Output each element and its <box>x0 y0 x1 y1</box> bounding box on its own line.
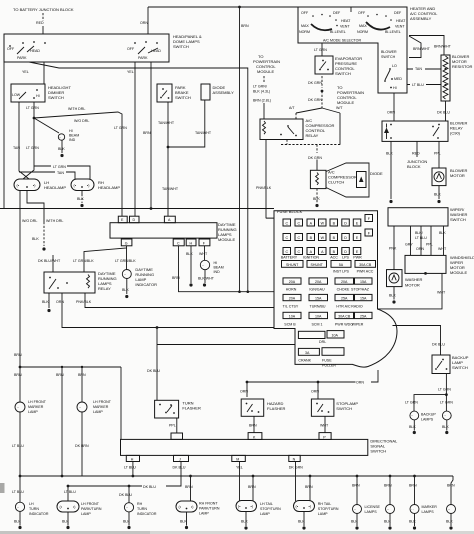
svg-text:LAMP: LAMP <box>260 512 270 516</box>
component D1 DIODE ASSEMBLY <box>201 84 210 100</box>
svg-text:PPL: PPL <box>169 424 176 428</box>
svg-text:OFF: OFF <box>7 47 15 51</box>
svg-text:HORN: HORN <box>286 287 297 291</box>
svg-text:HI: HI <box>36 94 40 98</box>
svg-text:ORN: ORN <box>416 247 424 251</box>
ground blower relay <box>389 200 392 203</box>
fuse row SCM B/SCM 1/PWR WDO/WIPER <box>283 312 372 318</box>
svg-text:··: ·· <box>387 508 389 512</box>
svg-text:WHT: WHT <box>199 252 208 256</box>
svg-text:WASHER: WASHER <box>405 277 423 282</box>
svg-text:BRN: BRN <box>409 484 417 488</box>
wire PARK output left edge <box>3 62 5 209</box>
svg-text:C: C <box>297 236 300 240</box>
svg-text:LT GRN: LT GRN <box>438 388 451 392</box>
svg-text:WHT: WHT <box>437 291 446 295</box>
lamp LICENSE LAMP 2 <box>386 505 395 514</box>
svg-text:CLUTCH: CLUTCH <box>328 180 344 185</box>
svg-text:MOTOR: MOTOR <box>405 283 420 288</box>
wire LT BLU bus <box>132 462 134 477</box>
svg-text:MODULE: MODULE <box>257 69 274 74</box>
pin DK GRN output N <box>289 455 300 461</box>
svg-text:BLK: BLK <box>446 520 453 524</box>
lamp RH FRONT MARKER LAMP <box>77 402 87 412</box>
switch S7 STOPLAMP SWITCH <box>311 399 334 416</box>
svg-text:PWR: PWR <box>353 256 362 260</box>
svg-text:SWITCH: SWITCH <box>175 95 191 100</box>
svg-text:T/L CTSY: T/L CTSY <box>283 304 299 308</box>
svg-text:BATTERY: BATTERY <box>281 256 298 260</box>
lamp RH HEADLAMP <box>71 179 94 191</box>
svg-text:FUSE: FUSE <box>322 359 332 363</box>
svg-text:SCM B: SCM B <box>284 322 296 326</box>
relay K1 DAYTIME RUNNING LAMPS RELAY <box>44 272 95 293</box>
svg-text:•): •) <box>251 505 253 509</box>
svg-text:10A: 10A <box>332 333 339 337</box>
svg-text:MAX: MAX <box>359 24 367 28</box>
svg-text:C: C <box>177 241 180 245</box>
svg-text:NORM: NORM <box>357 30 368 34</box>
svg-text:STOP/TURN: STOP/TURN <box>318 507 339 511</box>
svg-text:BEAM: BEAM <box>214 266 224 270</box>
svg-text:LICENSE: LICENSE <box>365 505 381 509</box>
svg-text:LT GRN: LT GRN <box>440 401 453 405</box>
ground RH turn ind <box>127 526 130 529</box>
svg-text:SWITCH: SWITCH <box>450 217 466 222</box>
svg-text:DK BLU/WHT: DK BLU/WHT <box>38 259 61 263</box>
svg-text:BEAM: BEAM <box>69 134 79 138</box>
ground LH turn ind <box>18 526 21 529</box>
svg-text:RELAY: RELAY <box>98 286 111 291</box>
lamp RH TURN INDICATOR <box>124 503 133 512</box>
svg-text:HI: HI <box>69 129 73 133</box>
svg-text:25A: 25A <box>360 314 367 318</box>
svg-text:DK GRN: DK GRN <box>308 98 322 102</box>
svg-text:BLK: BLK <box>409 520 416 524</box>
wire top bus to A/C assembly <box>148 7 351 12</box>
svg-text:DK GRN: DK GRN <box>308 81 322 85</box>
svg-text:W/O DRL: W/O DRL <box>22 219 37 223</box>
svg-text:SCM 1: SCM 1 <box>312 322 323 326</box>
pin D <box>130 216 140 223</box>
ground blower motor <box>437 200 440 203</box>
svg-text:H: H <box>190 241 193 245</box>
svg-text:BLK (4.3L): BLK (4.3L) <box>253 90 270 94</box>
svg-text:OFF: OFF <box>358 11 366 15</box>
svg-text:··: ·· <box>411 414 413 418</box>
svg-text:SHUNT: SHUNT <box>286 263 299 267</box>
switch S6 BACKUP LAMP SWITCH <box>432 355 450 374</box>
svg-text:20A: 20A <box>289 280 296 284</box>
svg-text:BLK: BLK <box>439 231 446 235</box>
svg-text:LH FRONT: LH FRONT <box>93 400 112 404</box>
svg-text:ORN: ORN <box>140 21 148 25</box>
motor M1 BLOWER MOTOR <box>432 168 446 186</box>
pin H <box>186 239 196 246</box>
ground LH headlamp <box>42 247 45 250</box>
svg-text:5A: 5A <box>339 263 344 267</box>
svg-text:C: C <box>285 222 288 226</box>
pin T turn input <box>171 433 183 439</box>
svg-text:BRN/WHT: BRN/WHT <box>434 45 452 49</box>
svg-text:LT GRN: LT GRN <box>314 48 327 52</box>
svg-text:•): •) <box>191 505 193 509</box>
svg-text:VENT: VENT <box>395 25 405 29</box>
svg-text:··: ·· <box>124 273 126 277</box>
svg-text:W/O DRL: W/O DRL <box>74 119 89 123</box>
svg-text:WITH DRL: WITH DRL <box>46 219 63 223</box>
svg-text:DK BLU: DK BLU <box>173 465 186 469</box>
ground LH front park lamp <box>66 526 69 529</box>
svg-text:ASSEMBLY: ASSEMBLY <box>213 90 235 95</box>
svg-text:DK GRN: DK GRN <box>308 156 322 160</box>
svg-text:INST LPS: INST LPS <box>333 270 350 274</box>
svg-text:INDICATOR: INDICATOR <box>135 282 157 287</box>
lamp BACKUP LAMP LH <box>410 411 419 420</box>
svg-text:CRANK: CRANK <box>298 359 311 363</box>
svg-text:TURN/BU: TURN/BU <box>310 304 326 308</box>
switch S2 HEADLIGHT DIMMER SWITCH <box>11 84 45 102</box>
ground DRL relay <box>47 309 50 312</box>
lamp LH FRONT PARK/TURN LAMP <box>57 501 79 512</box>
svg-text:TURN: TURN <box>137 507 147 511</box>
svg-text:LT BLU: LT BLU <box>12 490 24 494</box>
wire G to relay and indicator <box>84 246 127 272</box>
svg-text:20A: 20A <box>341 280 348 284</box>
svg-text:ACC: ACC <box>330 256 338 260</box>
svg-text:LH: LH <box>29 502 34 506</box>
svg-text:HEADLAMP: HEADLAMP <box>44 185 66 190</box>
svg-text:BRN: BRN <box>143 131 151 135</box>
wire ORN fuse block to flashers <box>247 370 378 397</box>
svg-text:TURN: TURN <box>29 507 39 511</box>
svg-text:CHOKE: CHOKE <box>337 287 350 291</box>
pin A <box>164 216 175 223</box>
svg-text:PWR WDO: PWR WDO <box>335 322 353 326</box>
svg-text:WHT: WHT <box>438 247 447 251</box>
pin F <box>199 239 210 246</box>
node TAN/WHT junction <box>167 146 170 149</box>
svg-text:INDICATOR: INDICATOR <box>137 512 157 516</box>
svg-text:•): •) <box>33 184 35 188</box>
svg-text:BRN/WHT: BRN/WHT <box>413 47 431 51</box>
svg-text:BLK: BLK <box>442 425 449 429</box>
svg-text:IGNITION: IGNITION <box>303 256 319 260</box>
svg-text:IND: IND <box>69 138 76 142</box>
svg-text:BLK: BLK <box>409 425 416 429</box>
svg-text:15A: 15A <box>360 296 367 300</box>
svg-text:LT GRN/BLK: LT GRN/BLK <box>115 259 136 263</box>
svg-text:RESISTOR: RESISTOR <box>452 64 472 69</box>
svg-text:LT BLU: LT BLU <box>124 465 136 469</box>
svg-text:LT GRN: LT GRN <box>26 106 39 110</box>
svg-text:BLOWER: BLOWER <box>381 50 397 54</box>
svg-text:OFF: OFF <box>301 11 309 15</box>
svg-text:··: ·· <box>448 508 450 512</box>
svg-text:•): •) <box>309 505 311 509</box>
svg-text:··: ·· <box>354 508 356 512</box>
svg-text:RH TAIL: RH TAIL <box>318 502 331 506</box>
svg-text:BLK: BLK <box>386 152 393 156</box>
wire main horizontal bus <box>0 208 274 210</box>
component L1 A/C COMPRESSOR CLUTCH <box>310 170 326 188</box>
svg-text:FUSE BLOCK: FUSE BLOCK <box>277 209 303 214</box>
svg-text:15A: 15A <box>360 280 367 284</box>
svg-text:C: C <box>297 222 300 226</box>
svg-text:M: M <box>236 458 239 462</box>
lamp LH TAIL STOP/TURN LAMP <box>236 501 257 512</box>
wire DK BLU to backup lamp switch <box>393 326 441 356</box>
pin YEL output M <box>232 455 246 461</box>
svg-text:(C90): (C90) <box>450 131 461 136</box>
relay K4 TURN FLASHER <box>155 400 179 418</box>
svg-text:RH FRONT: RH FRONT <box>199 502 218 506</box>
wire DK BLU bus <box>68 462 181 502</box>
wire fuse block lower feed <box>157 344 295 346</box>
svg-text:BLK: BLK <box>122 288 129 292</box>
svg-text:SWITCH: SWITCH <box>336 406 352 411</box>
wire LH headlamp ground drop <box>27 191 44 223</box>
svg-text:10A: 10A <box>315 314 322 318</box>
svg-text:LH FRONT: LH FRONT <box>81 502 100 506</box>
svg-text:W: W <box>321 236 325 240</box>
svg-text:•): •) <box>87 184 89 188</box>
ground H pin <box>189 283 192 286</box>
svg-text:OFF: OFF <box>127 47 135 51</box>
wire relay output dashed <box>281 140 341 145</box>
svg-text:LT GRN/: LT GRN/ <box>253 85 267 89</box>
svg-text:LAMP: LAMP <box>199 512 209 516</box>
svg-text:N: N <box>293 458 296 462</box>
module A1 HEATER AND A/C CONTROL ASSEMBLY <box>298 7 407 93</box>
svg-text:LO: LO <box>392 64 397 68</box>
svg-text:SWITCH: SWITCH <box>452 365 468 370</box>
svg-text:D: D <box>344 250 347 254</box>
svg-text:C: C <box>285 236 288 240</box>
svg-text:BLK: BLK <box>389 294 396 298</box>
ground hi beam ind 2 <box>203 283 206 286</box>
svg-text:BLK: BLK <box>434 193 441 197</box>
svg-text:D: D <box>344 222 347 226</box>
svg-text:DK BLU: DK BLU <box>437 111 450 115</box>
svg-text:VENT: VENT <box>340 25 350 29</box>
svg-text:BLK: BLK <box>42 300 49 304</box>
svg-text:PNK/BLK: PNK/BLK <box>76 300 92 304</box>
ground hi beam ind <box>60 154 63 157</box>
svg-text:BRN: BRN <box>305 485 313 489</box>
svg-text:D: D <box>133 218 136 222</box>
ground clutch <box>315 204 318 207</box>
svg-text:MAX: MAX <box>301 24 309 28</box>
svg-text:LT GRN: LT GRN <box>26 146 39 150</box>
svg-text:RADIO: RADIO <box>351 304 363 308</box>
wire battery feed dashed <box>42 13 44 21</box>
svg-text:DEF: DEF <box>394 11 402 15</box>
svg-text:WITH DRL: WITH DRL <box>68 107 85 111</box>
svg-text:GRY: GRY <box>405 243 413 247</box>
svg-text:DK BLU: DK BLU <box>143 485 156 489</box>
svg-text:H: H <box>131 458 134 462</box>
svg-text:TAN/WHT: TAN/WHT <box>158 121 175 125</box>
svg-text:DRL: DRL <box>319 340 326 344</box>
svg-text:BRN: BRN <box>14 353 22 357</box>
motor M2 WASHER MOTOR <box>387 270 403 287</box>
svg-text:PNK/BLK: PNK/BLK <box>256 186 272 190</box>
relay K3 BLOWER RELAY (C90) <box>382 121 448 141</box>
svg-text:MODULE: MODULE <box>450 270 467 275</box>
svg-text:TO BATTERY JUNCTION BLOCK: TO BATTERY JUNCTION BLOCK <box>13 7 74 12</box>
svg-text:C: C <box>285 250 288 254</box>
svg-text:MOTOR: MOTOR <box>450 173 465 178</box>
svg-text:LT GRN: LT GRN <box>53 165 66 169</box>
svg-text:30A CB: 30A CB <box>359 263 372 267</box>
svg-text:SWITCH: SWITCH <box>173 44 189 49</box>
svg-text:MARKER: MARKER <box>28 405 44 409</box>
module U2 WINDSHIELD WIPER MOTOR MODULE <box>405 255 446 273</box>
ground washer motor <box>392 300 395 303</box>
lamp RH TAIL STOP/TURN LAMP <box>294 501 315 512</box>
svg-text:MODULE: MODULE <box>218 237 235 242</box>
svg-text:20A: 20A <box>315 280 322 284</box>
svg-text:BRN: BRN <box>14 373 22 377</box>
wire YEL to LH tail <box>239 462 241 502</box>
svg-text:LAMP: LAMP <box>318 512 328 516</box>
lamp HI BEAM IND <box>58 134 64 140</box>
lamp LH TURN INDICATOR <box>15 502 24 511</box>
component D2 diode bracket <box>326 163 369 197</box>
svg-text:SWITCH: SWITCH <box>48 95 64 100</box>
svg-text:BRN (2.8L): BRN (2.8L) <box>253 99 271 103</box>
svg-text:15A: 15A <box>315 296 322 300</box>
svg-text:PARK/TURN: PARK/TURN <box>199 507 220 511</box>
svg-text:BLK: BLK <box>241 520 248 524</box>
svg-text:ORN: ORN <box>240 390 248 394</box>
pin G <box>121 239 132 246</box>
svg-text:IND: IND <box>214 270 221 274</box>
node BRN tap junction <box>238 6 241 9</box>
svg-text:A/C MODE SELECTOR: A/C MODE SELECTOR <box>323 39 361 43</box>
svg-text:•): •) <box>73 505 75 509</box>
svg-text:G: G <box>125 241 128 245</box>
svg-text:BRN: BRN <box>384 484 392 488</box>
svg-text:HEAD: HEAD <box>30 49 40 53</box>
svg-text:DK GRN: DK GRN <box>289 465 303 469</box>
svg-text:BLK/: BLK/ <box>415 231 423 235</box>
svg-text:BRN: BRN <box>249 424 257 428</box>
svg-text:3A: 3A <box>305 351 310 355</box>
svg-text:PPL: PPL <box>426 243 433 247</box>
svg-text:BRN: BRN <box>185 485 193 489</box>
svg-text:··: ·· <box>59 136 61 140</box>
switch S5 WIPER/WASHER SWITCH <box>388 208 448 226</box>
svg-text:PULLER: PULLER <box>322 364 336 368</box>
pin C <box>173 239 184 246</box>
component R1 BLOWER MOTOR RESISTOR <box>441 55 450 101</box>
svg-text:LOW: LOW <box>12 93 21 97</box>
svg-text:30A CB: 30A CB <box>338 314 351 318</box>
pin K hazard input <box>248 433 262 440</box>
lamp HI BEAM IND 2 <box>200 260 209 269</box>
svg-text:ASSEMBLY: ASSEMBLY <box>410 16 432 21</box>
svg-text:··: ·· <box>79 406 81 410</box>
svg-text:··: ·· <box>126 506 128 510</box>
wire BLK LH headlamp ground <box>43 222 45 246</box>
svg-text:HI: HI <box>214 261 218 265</box>
svg-text:MODULE: MODULE <box>337 100 354 105</box>
module U1 DAYTIME RUNNING LAMPS MODULE <box>110 223 217 238</box>
svg-text:RED: RED <box>412 152 420 156</box>
ground LH tail <box>244 526 247 529</box>
svg-text:LT GRN: LT GRN <box>405 401 418 405</box>
lamp BACKUP LAMP RH <box>442 411 451 420</box>
svg-text:HEADLAMP: HEADLAMP <box>98 185 120 190</box>
wire BRN marker bus <box>20 366 121 368</box>
relay K5 HAZARD FLASHER <box>241 399 264 416</box>
ground RH headlamp <box>80 204 83 207</box>
lamp LH HEADLAMP <box>14 179 40 191</box>
svg-text:LAMPS: LAMPS <box>421 418 434 422</box>
svg-text:LAMP: LAMP <box>28 410 38 414</box>
svg-text:BRN: BRN <box>248 485 256 489</box>
svg-text:BLK: BLK <box>32 237 39 241</box>
svg-text:··: ·· <box>411 508 413 512</box>
svg-text:LT BLU: LT BLU <box>412 83 424 87</box>
svg-text:IGN/GAU: IGN/GAU <box>309 287 325 291</box>
svg-text:YEL: YEL <box>127 70 134 74</box>
svg-text:BLK/WHT: BLK/WHT <box>198 277 215 281</box>
ground DRL indicator <box>125 295 128 298</box>
svg-text:ORN: ORN <box>356 381 364 385</box>
svg-text:DK BLU: DK BLU <box>119 493 132 497</box>
svg-text:DIODE: DIODE <box>370 171 383 176</box>
svg-text:C: C <box>297 250 300 254</box>
svg-text:NORM: NORM <box>299 30 310 34</box>
svg-text:YEL: YEL <box>22 70 29 74</box>
lamp DAYTIME RUNNING LAMP INDICATOR <box>122 270 131 279</box>
svg-text:RH: RH <box>137 502 143 506</box>
svg-text:BLK: BLK <box>186 252 193 256</box>
svg-text:BLOCK: BLOCK <box>407 164 421 169</box>
svg-text:D: D <box>344 236 347 240</box>
svg-text:W/T: W/T <box>336 106 343 110</box>
svg-text:PNK: PNK <box>389 247 397 251</box>
wire to directional switch corner <box>120 367 122 439</box>
svg-text:··: ·· <box>17 406 19 410</box>
pin LT BLU output <box>126 455 139 461</box>
svg-text:LT BLU: LT BLU <box>64 490 76 494</box>
scan artifact bottom band <box>0 531 474 534</box>
svg-text:BRN: BRN <box>352 484 360 488</box>
svg-text:FLASHER: FLASHER <box>182 406 201 411</box>
svg-text:··: ·· <box>444 414 446 418</box>
pin E <box>118 216 127 223</box>
fuse SHUNT row <box>282 261 376 268</box>
svg-text:LAMPS: LAMPS <box>365 510 378 514</box>
svg-text:RELAY: RELAY <box>306 133 319 138</box>
svg-text:LT BLU: LT BLU <box>12 444 24 448</box>
svg-text:LPS: LPS <box>342 256 349 260</box>
svg-text:LAMP: LAMP <box>93 410 103 414</box>
ground RH tail <box>302 526 305 529</box>
pin DK BLU output J <box>174 455 189 461</box>
fuse DRL row <box>298 331 325 338</box>
svg-text:STOP/TURN: STOP/TURN <box>260 507 281 511</box>
svg-text:DEF: DEF <box>333 11 341 15</box>
svg-text:ORN: ORN <box>56 300 64 304</box>
svg-text:SWITCH: SWITCH <box>370 449 386 454</box>
lamp LICENSE LAMP 1 <box>353 505 362 514</box>
component FUSE PULLER <box>322 348 344 356</box>
